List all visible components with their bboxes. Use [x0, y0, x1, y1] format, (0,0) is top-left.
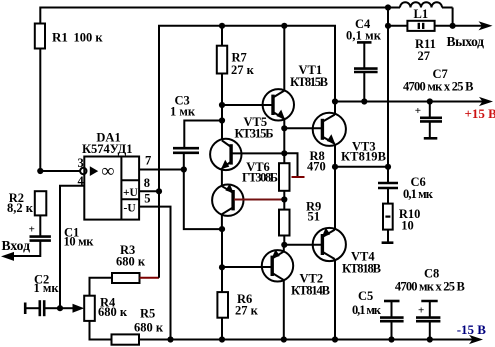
wire op-amp pin8 [139, 190, 159, 192]
node R11 right [450, 23, 456, 29]
node C5 rail [388, 336, 394, 342]
svg-text:∞: ∞ [102, 160, 115, 180]
wire +15 rail [335, 101, 488, 103]
wire op-amp pin7 [139, 169, 184, 171]
svg-text:0,1 мк: 0,1 мк [403, 187, 434, 201]
svg-text:+: + [415, 105, 421, 117]
svg-text:+: + [418, 304, 424, 316]
svg-text:C8: C8 [424, 267, 439, 281]
node output L1 column [385, 164, 391, 170]
svg-text:27: 27 [418, 49, 431, 63]
wire column to R6 [221, 229, 223, 292]
wire C3 top to R7 column [184, 121, 222, 149]
svg-text:470: 470 [307, 160, 326, 174]
node pin8 [156, 188, 162, 194]
wire VT3 emitter down [334, 144, 336, 167]
svg-text:4700 мк х 25 В: 4700 мк х 25 В [395, 279, 465, 293]
transistor VT3 [313, 113, 386, 164]
svg-text:Вход: Вход [2, 238, 31, 253]
wire VT1 base [222, 104, 272, 106]
capacitor C1 [30, 225, 95, 248]
node VT2 base junction [219, 264, 225, 270]
wire VT4 collector down [334, 259, 336, 340]
svg-text:ГТ308Б: ГТ308Б [242, 171, 278, 185]
capacitor C3 [170, 94, 199, 153]
wire VT3 collector up [334, 102, 336, 116]
node VT3 base junction [281, 125, 287, 131]
svg-text:680 к: 680 к [98, 305, 128, 319]
node C7 rail [427, 98, 433, 104]
node VT6 collector / pin7 branch [219, 226, 225, 232]
wire op-amp pin4 down [60, 186, 84, 309]
node C2 / pin4 column [57, 305, 63, 311]
svg-text:10: 10 [401, 219, 414, 233]
svg-text:+: + [29, 223, 35, 235]
node R6 rail [219, 336, 225, 342]
arrow -15V rail [469, 335, 483, 344]
wire VT2 collector down [283, 280, 285, 340]
svg-text:51: 51 [308, 210, 321, 224]
svg-text:-15 В: -15 В [457, 322, 487, 337]
svg-text:0,1 мк: 0,1 мк [346, 29, 382, 43]
node R11 left [385, 23, 391, 29]
inductor L1 [388, 2, 453, 21]
trimmer R4 wiper arrow [60, 304, 84, 313]
wire output line [335, 166, 388, 168]
svg-text:1 мк: 1 мк [34, 281, 60, 295]
wire VT5 emitter to VT6 emitter [221, 168, 223, 187]
capacitor C8 [395, 267, 465, 340]
svg-text:4700 мк х 25 В: 4700 мк х 25 В [403, 79, 474, 93]
svg-text:+U: +U [123, 187, 139, 199]
wire output column up [387, 8, 389, 167]
svg-text:27 к: 27 к [231, 63, 255, 77]
resistor R11 [388, 21, 453, 63]
svg-text:4: 4 [78, 174, 85, 188]
wire R6 bottom [221, 318, 223, 340]
wire pin7 node down to VT6 collector node [184, 170, 222, 230]
node pin7 / C3 [181, 166, 187, 172]
wire R2 leads [39, 215, 41, 236]
svg-text:R5: R5 [140, 306, 155, 320]
wire R4 bottom to rail [90, 321, 112, 340]
svg-text:L1: L1 [414, 7, 429, 21]
wire VT6 collector down [221, 214, 223, 229]
svg-text:Выход: Выход [447, 34, 485, 49]
capacitor C5 [352, 289, 404, 339]
node VT2 collector rail [281, 336, 287, 342]
node R9 bottom / VT4 base / VT2 emitter [281, 242, 287, 248]
wire node to op-amp pin3 [40, 170, 79, 172]
svg-text:27 к: 27 к [235, 304, 259, 318]
node +15 rail start [332, 98, 338, 104]
svg-text:+15 В: +15 В [465, 106, 495, 121]
wire bias tap stub [284, 153, 304, 177]
svg-text:5: 5 [144, 191, 150, 205]
wire bias line to VT3 collector corner [222, 26, 335, 102]
svg-text:КТ814В: КТ814В [291, 284, 330, 298]
wire output arrow line [453, 25, 487, 27]
node bias line R7 top [219, 23, 225, 29]
wire C1 to input arrow [12, 241, 40, 256]
transistor VT2 [262, 249, 330, 297]
node VT4 collector rail [332, 336, 338, 342]
trimmer R4 [84, 295, 128, 321]
wire VT4 base [284, 244, 321, 246]
svg-text:100 к: 100 к [74, 31, 104, 45]
node C3 junction [219, 117, 225, 123]
transistor VT5 [210, 115, 273, 170]
wire VT5 base [232, 152, 284, 154]
svg-text:3: 3 [78, 156, 84, 170]
svg-text:КТ818В: КТ818В [342, 262, 381, 276]
transistor VT1 [263, 63, 328, 121]
op-amp DA1 [78, 130, 152, 219]
svg-text:КТ819В: КТ819В [341, 150, 386, 164]
resistor R7 [217, 26, 255, 77]
svg-text:7: 7 [145, 154, 151, 168]
wire VT6 base (red) [234, 198, 284, 200]
svg-text:C5: C5 [358, 289, 373, 303]
node R8 top / VT5 base [281, 150, 287, 156]
wire bottom rail -15 [139, 339, 478, 341]
wire VT3 base [284, 127, 321, 129]
node R8 bottom / VT6 base [281, 196, 287, 202]
resistor R1 [35, 24, 104, 49]
svg-text:8,2 к: 8,2 к [7, 201, 34, 215]
svg-text:R1: R1 [52, 30, 68, 45]
node VT1 collector bias [281, 23, 287, 29]
transistor VT4 [313, 228, 381, 276]
capacitor C2 terminal [24, 303, 27, 315]
resistor R6 [217, 292, 258, 318]
wire R4 top to R3 [90, 278, 113, 296]
svg-text:8: 8 [144, 176, 150, 190]
wire VT2 base [222, 266, 271, 268]
resistor R2 [7, 191, 46, 215]
resistor R10 [382, 204, 421, 243]
capacitor C6 [378, 167, 434, 204]
wire VT4 emitter up [334, 167, 336, 230]
svg-text:К574УД1: К574УД1 [82, 142, 133, 156]
wire C3 bottom to pin7 node [183, 153, 185, 170]
transistor VT6 [212, 160, 278, 216]
node VT1 base junction [219, 102, 225, 108]
node L1 top junction [385, 4, 391, 10]
resistor R8 [279, 149, 326, 200]
node C8 rail [427, 336, 433, 342]
wire R1 to input node [39, 48, 41, 171]
svg-text:КТ315Б: КТ315Б [235, 127, 274, 141]
svg-text:1 мк: 1 мк [170, 105, 196, 119]
wire R3 right to pin8 column [140, 277, 160, 279]
arrow output Выход [479, 21, 493, 30]
capacitor C2 [25, 272, 60, 316]
svg-text:0,1 мк: 0,1 мк [352, 303, 382, 317]
wire VT2 emitter up [283, 245, 285, 252]
svg-text:-U: -U [124, 203, 137, 215]
svg-text:10 мк: 10 мк [64, 234, 95, 248]
wire top feedback rail [40, 8, 388, 49]
node output [332, 164, 338, 170]
node pin5 rail [167, 336, 173, 342]
wire op-amp pin5 to rail [139, 207, 170, 340]
resistor R3 [112, 243, 146, 283]
arrow +15V rail [479, 97, 493, 106]
node input (pin3 junction) [37, 168, 43, 174]
svg-text:680 к: 680 к [116, 254, 146, 268]
resistor R9 [279, 200, 321, 245]
wire VT1 collector up [283, 26, 285, 91]
wire coil end down [452, 8, 454, 26]
svg-text:КТ815В: КТ815В [290, 75, 328, 89]
wire pin8 column [159, 26, 222, 278]
wire R7 bottom to VT5 collector [221, 74, 223, 141]
capacitor C4 [346, 17, 382, 101]
capacitor C7 [403, 67, 474, 138]
resistor R5 [112, 306, 164, 344]
node C4 rail [361, 98, 367, 104]
svg-text:680 к: 680 к [134, 320, 164, 334]
wire VT1 emitter down [283, 119, 285, 153]
input arrow Вход [1, 238, 30, 261]
